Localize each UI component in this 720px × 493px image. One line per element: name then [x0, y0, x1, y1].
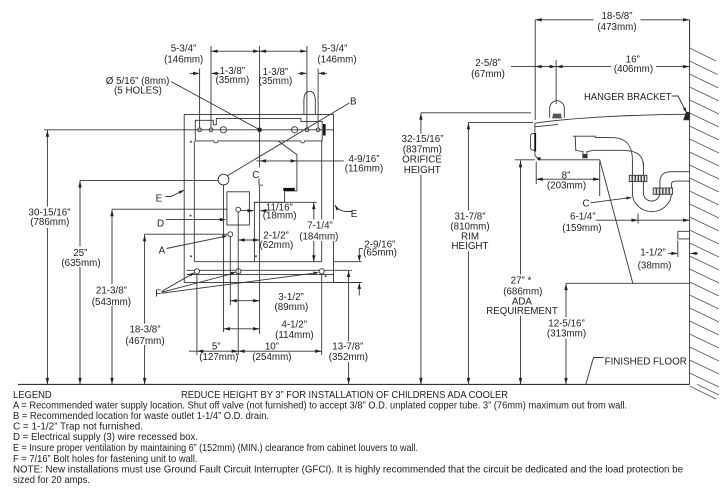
trap U-bend inner: [643, 193, 660, 201]
svg-text:B = Recommended location for w: B = Recommended location for waste outle…: [13, 411, 269, 422]
svg-text:(635mm): (635mm): [61, 258, 100, 269]
svg-text:(203mm): (203mm): [547, 181, 586, 192]
svg-text:(786mm): (786mm): [30, 217, 69, 228]
cooler slanted underside: [600, 160, 633, 283]
inner recessed panel left edge: [193, 141, 195, 262]
8in dim ext lines: [536, 162, 600, 197]
svg-text:(67mm): (67mm): [471, 69, 505, 80]
arrowheads 11/16: [248, 209, 255, 212]
A leader: [167, 237, 224, 249]
dim ext line hole R2: [317, 69, 319, 128]
arrowheads 2-5/8 and 16: [535, 65, 542, 68]
svg-text:(254mm): (254mm): [252, 352, 291, 363]
trap right riser: [660, 188, 672, 194]
svg-text:27” *: 27” *: [511, 276, 532, 287]
svg-text:(473mm): (473mm): [597, 22, 636, 33]
left dim vertical 21-3/8: [111, 209, 113, 384]
waste stub into wall: [678, 231, 690, 239]
arrowheads 4-1/2: [224, 327, 231, 330]
hanger bracket side clip (dark): [684, 112, 690, 120]
svg-text:F: F: [155, 288, 161, 299]
hanger bracket front view outline: [195, 118, 322, 140]
cooler front face: [535, 123, 539, 160]
arrowheads 1-1/2: [671, 252, 678, 255]
arrowhead E left leader: [179, 189, 185, 194]
arrowheads 2-1/2: [238, 238, 245, 241]
trap elbow to wall arm: [660, 172, 690, 189]
arrowheads 2-9/16: [358, 255, 361, 262]
27 dim vertical: [520, 161, 522, 385]
arrowhead hanger bracket leader: [683, 107, 688, 113]
svg-text:18-5/8”: 18-5/8”: [601, 11, 632, 22]
svg-text:C: C: [583, 198, 590, 209]
5-3/4 dim line left: [211, 50, 260, 52]
wall hatching: [690, 48, 719, 399]
bolt hole F1: [194, 269, 199, 274]
basin drain cup: [575, 136, 593, 158]
16in dim line: [556, 66, 690, 68]
3-1/2 dim line: [230, 300, 259, 302]
2-9/16 ext top (panel bottom ext): [334, 261, 362, 263]
waste outlet circle B: [218, 174, 229, 185]
svg-text:E = Insure proper ventilation: E = Insure proper ventilation by maintai…: [13, 443, 418, 454]
cooler underside flat: [539, 159, 600, 161]
rim height line: [468, 121, 533, 123]
2-9/16 arrows: [359, 248, 363, 250]
svg-text:(5 HOLES): (5 HOLES): [114, 86, 162, 97]
svg-text:(35mm): (35mm): [216, 75, 250, 86]
cooler rim lip: [535, 124, 558, 126]
arrowheads 8in: [536, 178, 543, 181]
arrowheads 13-7/8: [347, 271, 350, 278]
svg-text:21-3/8”: 21-3/8”: [96, 285, 127, 296]
trap union nut 2: [653, 188, 672, 194]
arrowheads 6-1/4: [632, 219, 639, 222]
arrowheads 5-3/4 dims: [211, 50, 218, 53]
svg-text:HEIGHT: HEIGHT: [451, 241, 488, 252]
25in horizontal to circle B: [80, 179, 218, 181]
svg-text:REQUIREMENT: REQUIREMENT: [486, 306, 558, 317]
2-9/16 ext bottom (cabinet bottom ext): [334, 282, 362, 284]
E left leader: [166, 190, 185, 196]
arrowheads 4-9/16: [260, 159, 267, 162]
bracket large hole left: [220, 127, 226, 133]
drain dome on cabinet top: [304, 91, 315, 114]
7-1/4 dim vertical: [313, 202, 315, 261]
18-5/8 dim line: [535, 19, 689, 21]
drain nipple tip (dark): [583, 154, 588, 158]
bracket hole left2: [209, 128, 213, 132]
ext line below bolt hole3: [321, 274, 323, 355]
svg-text:13-7/8”: 13-7/8”: [332, 342, 363, 353]
dim ext line hole L2: [210, 46, 212, 128]
arrowheads F leaders: [189, 271, 195, 276]
svg-text:32-15/16”: 32-15/16”: [402, 134, 444, 145]
svg-text:L: L: [258, 178, 264, 189]
dim ext centerline top: [259, 46, 261, 128]
arrowhead E right leader: [334, 204, 339, 210]
svg-text:FINISHED FLOOR: FINISHED FLOOR: [605, 356, 687, 367]
32-15/16 dim vertical: [420, 113, 422, 385]
F leaders: [162, 274, 192, 291]
ext line below box hole: [237, 212, 239, 355]
leader from hole label to center dot: [171, 82, 259, 130]
rivet dots: [190, 141, 192, 143]
bubbler base (dark): [552, 114, 562, 119]
bottom mounting strip lower line: [187, 273, 334, 275]
svg-text:5”: 5”: [212, 342, 221, 353]
svg-text:REDUCE HEIGHT BY 3” FOR INSTAL: REDUCE HEIGHT BY 3” FOR INSTALLATION OF …: [181, 390, 508, 401]
left dim vertical 18-3/8: [144, 234, 146, 384]
left dim vertical 30-15/16: [46, 130, 48, 385]
6-1/4 ext tick: [637, 214, 639, 224]
electrical box hole: [236, 207, 241, 212]
18-5/8 ext right along wall: [689, 20, 691, 48]
finished floor leader: [586, 358, 604, 385]
svg-text:(18mm): (18mm): [263, 210, 297, 221]
bracket hole right2: [316, 128, 320, 132]
21-3/8 horizontal to box: [112, 208, 227, 210]
leader from B to waste circle: [227, 103, 349, 176]
arrowheads side vertical dims floor: [419, 378, 422, 385]
arrowhead D leader: [220, 218, 227, 221]
floor line: [18, 383, 690, 385]
bracket large hole right: [292, 127, 298, 133]
svg-text:E: E: [156, 193, 163, 204]
svg-text:A = Recommended water supply l: A = Recommended water supply location. S…: [13, 401, 627, 412]
left dim vertical 25: [79, 180, 81, 384]
1-1/2 dim line: [668, 252, 677, 254]
svg-text:(114mm): (114mm): [275, 330, 313, 341]
arrowheads side vertical dims top: [419, 113, 422, 120]
ext line below bolt hole1: [196, 274, 198, 355]
ext line below hole A: [229, 237, 231, 305]
solid black recess bar: [283, 188, 295, 191]
svg-text:D = Electrical supply (3) wire: D = Electrical supply (3) wire recessed …: [13, 432, 198, 443]
svg-text:2-5/8”: 2-5/8”: [475, 58, 501, 69]
wall line: [689, 20, 691, 384]
orifice height line: [421, 112, 531, 114]
arrowheads 5in 10in: [197, 350, 204, 353]
bracket right side flange (dark): [323, 124, 326, 136]
5in and 10in dim line: [189, 350, 322, 352]
cooler top edge side view: [535, 114, 690, 123]
6-1/4 dim line: [596, 219, 690, 221]
svg-text:(38mm): (38mm): [638, 260, 672, 271]
water supply hole A: [228, 232, 233, 237]
E right leader: [335, 205, 353, 212]
svg-text:5-3/4”: 5-3/4”: [171, 44, 197, 55]
ext line below circle B: [223, 185, 225, 332]
2-1/2 dim line: [238, 239, 259, 241]
svg-text:A: A: [159, 246, 166, 257]
mounting hole row line + 30-15/16 extension: [44, 129, 334, 131]
svg-text:LEGEND: LEGEND: [13, 390, 52, 401]
trap U-bend outer: [632, 193, 671, 212]
arrowhead C leader: [626, 196, 632, 200]
trap union nut 1: [629, 175, 647, 181]
bubbler center ext: [555, 60, 557, 104]
13-7/8 ext horizontal: [334, 269, 352, 271]
inner recessed panel right edge: [321, 141, 323, 262]
waste pipe bend outer: [595, 138, 633, 164]
basin drain flange: [573, 135, 596, 137]
arrowheads 1-3/8 dims: [193, 72, 200, 75]
arrowheads left dim columns floor: [46, 378, 49, 385]
C side leader: [591, 198, 631, 203]
13-7/8 dim vertical: [348, 271, 350, 384]
cabinet front view outline: [184, 115, 333, 283]
front face dark edge: [534, 133, 536, 152]
svg-text:(127mm): (127mm): [199, 352, 238, 363]
hanger bracket leader: [672, 96, 687, 113]
svg-text:(116mm): (116mm): [345, 164, 383, 175]
svg-text:(62mm): (62mm): [260, 240, 294, 251]
11/16 dim: [241, 210, 254, 212]
arrowheads left dim columns top: [46, 130, 49, 137]
svg-text:(89mm): (89mm): [275, 302, 309, 313]
electrical box D: [227, 192, 250, 225]
svg-text:(352mm): (352mm): [329, 352, 368, 363]
bottom mounting strip top line: [187, 269, 334, 271]
18-5/8 ext left: [534, 20, 536, 120]
center hole dot: [258, 128, 262, 132]
leader dot at center hole: [258, 128, 261, 131]
bolt hole F3: [319, 269, 324, 274]
svg-text:(313mm): (313mm): [547, 329, 586, 340]
svg-text:(184mm): (184mm): [299, 231, 338, 242]
svg-text:F = 7/16” Bolt holes for faste: F = 7/16” Bolt holes for fastening unit …: [13, 454, 198, 465]
svg-text:5-3/4”: 5-3/4”: [322, 44, 348, 55]
2-5/8 dim line: [511, 66, 556, 68]
waste pipe bend inner: [594, 150, 644, 166]
svg-text:(467mm): (467mm): [125, 336, 164, 347]
D leader: [166, 219, 222, 221]
svg-text:NOTE: New installations must u: NOTE: New installations must use Ground …: [13, 465, 683, 476]
bubbler dome: [550, 101, 565, 118]
1-3/8 right arrows: [298, 72, 306, 74]
svg-text:(65mm): (65mm): [363, 248, 397, 259]
svg-text:E: E: [351, 209, 358, 220]
apron corner dark blob: [538, 157, 541, 160]
svg-text:1-1/2”: 1-1/2”: [640, 248, 666, 259]
dim ext line hole L1: [199, 69, 201, 128]
svg-text:10”: 10”: [265, 342, 279, 353]
svg-text:(543mm): (543mm): [92, 297, 131, 308]
svg-text:(35mm): (35mm): [259, 76, 293, 87]
31-7/8 dim vertical: [467, 122, 469, 384]
svg-text:(406mm): (406mm): [614, 64, 653, 75]
1-1/2 ext below stub: [677, 241, 679, 258]
svg-text:7-1/4”: 7-1/4”: [307, 221, 333, 232]
svg-text:(146mm): (146mm): [317, 55, 356, 66]
push bar: [531, 134, 536, 151]
panel cutout step outline: [254, 141, 297, 262]
svg-text:D: D: [157, 218, 164, 229]
svg-text:sized for 20 amps.: sized for 20 amps.: [13, 475, 90, 486]
4-9/16 dim line: [256, 160, 343, 162]
svg-text:B: B: [350, 97, 357, 108]
1-3/8 left arrows: [190, 72, 199, 74]
svg-text:HANGER BRACKET: HANGER BRACKET: [584, 92, 672, 103]
18-3/8 horizontal to hole A: [145, 233, 228, 235]
bracket hole right1: [305, 128, 309, 132]
svg-text:18-3/8”: 18-3/8”: [129, 324, 160, 335]
arrowheads 18-5/8: [535, 18, 542, 21]
cooler bottom line + 12-5/16 ext: [566, 282, 690, 284]
svg-text:C = 1-1/2” Trap not furnished.: C = 1-1/2” Trap not furnished.: [13, 422, 143, 433]
svg-text:(159mm): (159mm): [562, 223, 601, 234]
arrowheads 3-1/2: [230, 299, 237, 302]
step line extension right: [254, 201, 316, 203]
dim ext line hole R1: [306, 46, 308, 128]
svg-text:HEIGHT: HEIGHT: [404, 165, 441, 176]
arrowhead A leader: [222, 234, 228, 238]
8in dim line: [536, 178, 600, 180]
svg-text:(146mm): (146mm): [164, 55, 203, 66]
arrowheads 7-1/4: [312, 203, 315, 210]
12-5/16 dim vertical: [565, 283, 567, 384]
bracket bottom edge with notches: [195, 141, 322, 143]
5-3/4 dim line right: [260, 50, 307, 52]
trap tailpiece: [632, 162, 643, 194]
inner recessed panel bottom edge: [194, 261, 321, 263]
bracket hole left1: [198, 128, 202, 132]
svg-text:6-1/4”: 6-1/4”: [570, 211, 596, 222]
4-1/2 dim line: [224, 328, 260, 330]
27in apron ext line: [515, 159, 535, 161]
dim ext centerline lower: [259, 132, 261, 334]
svg-text:4-1/2”: 4-1/2”: [281, 319, 307, 330]
bolt hole F2: [236, 269, 241, 274]
